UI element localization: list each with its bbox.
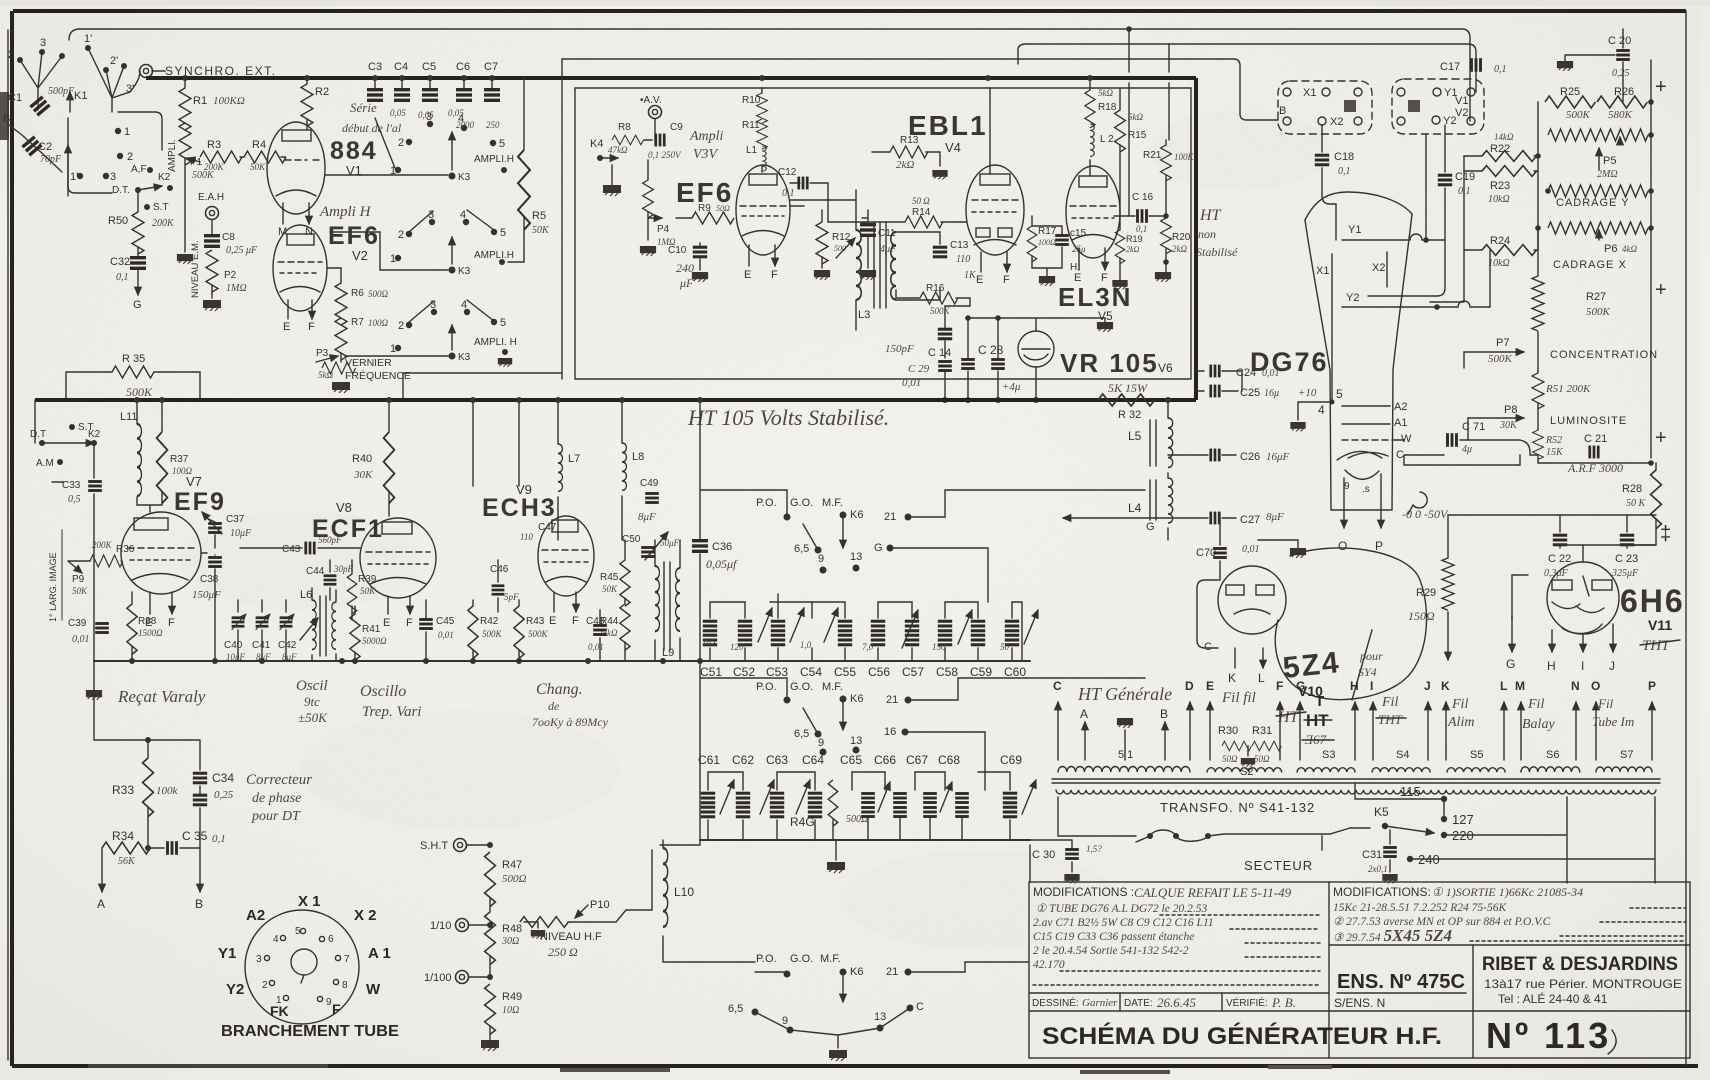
wire C21 row to rail (1648, 460, 1654, 466)
svg-text:Fil: Fil (1597, 696, 1614, 711)
svg-text:R2: R2 (315, 86, 329, 98)
svg-text:C: C (1204, 641, 1212, 653)
svg-text:V1: V1 (1455, 95, 1468, 107)
inductor L7 (557, 400, 559, 444)
switch cluster PO GO MF no2 (700, 678, 1145, 790)
svg-text:MODIFICATIONS :: MODIFICATIONS : (1033, 885, 1134, 899)
svg-text:6H6: 6H6 (1620, 583, 1685, 619)
svg-text:1° LARG. IMAGE: 1° LARG. IMAGE (48, 552, 58, 622)
svg-text:C42: C42 (278, 640, 297, 651)
resistor R43 (514, 606, 524, 659)
svg-text:AMPLI.H: AMPLI.H (474, 154, 514, 165)
svg-text:C24: C24 (1236, 367, 1256, 379)
wire box top y59-88 (575, 87, 1191, 89)
svg-text:E: E (549, 615, 556, 627)
scanner noise blobs (0, 92, 9, 140)
wire VR top rail (966, 317, 1105, 319)
svg-text:Fil: Fil (1527, 697, 1544, 712)
svg-text:S/ENS. N: S/ENS. N (1334, 996, 1385, 1010)
svg-text:X2: X2 (1330, 116, 1343, 128)
svg-text:L9: L9 (662, 647, 674, 659)
svg-text:M.F.: M.F. (820, 953, 841, 965)
trimmer C57 (938, 620, 952, 647)
svg-text:1K: 1K (964, 270, 977, 281)
resistor R17 (1027, 226, 1037, 262)
node D.T. (135, 187, 141, 193)
svg-text:110: 110 (520, 532, 533, 542)
svg-text:7,0: 7,0 (862, 642, 874, 652)
trimmer C42 (280, 614, 294, 630)
svg-text:6: 6 (328, 934, 334, 945)
bias pot circle (1408, 492, 1427, 514)
svg-text:4: 4 (273, 934, 279, 945)
wire top rail y29 (69, 29, 1470, 121)
svg-text:R4: R4 (252, 139, 266, 151)
svg-text:C70: C70 (1196, 547, 1216, 559)
svg-text:30K: 30K (353, 469, 373, 481)
terminal SYNCHRO EXT (140, 65, 153, 78)
svg-text:.s: .s (1362, 484, 1370, 495)
svg-text:500K: 500K (930, 306, 951, 316)
svg-text:Ampli: Ampli (689, 129, 724, 144)
svg-text:M.F.: M.F. (822, 497, 843, 509)
svg-text:50 Ω: 50 Ω (912, 196, 930, 206)
ground under R12 (814, 270, 830, 280)
svg-text:C 35: C 35 (182, 829, 208, 843)
ground right of VR105 (1104, 318, 1106, 322)
svg-text:I: I (1370, 679, 1373, 693)
inductor L5 (1167, 400, 1169, 418)
resistor R49 (485, 984, 496, 1034)
svg-text:C37: C37 (226, 514, 245, 525)
svg-text:2 le 20.4.54 Sortie 541-132: 2 le 20.4.54 Sortie 541-132 542-2 (1033, 945, 1189, 957)
potentiometer P2 (206, 250, 218, 292)
wire K2 down (93, 443, 95, 661)
svg-text:16μF: 16μF (1266, 451, 1290, 463)
svg-text:+: + (1655, 279, 1667, 301)
deflection plate box Y dashed (1392, 79, 1484, 134)
svg-text:100Ω: 100Ω (1038, 238, 1056, 247)
svg-text:R9: R9 (698, 203, 711, 214)
resistor CADRAGE Y row (1548, 185, 1648, 197)
wire grid into 884 (284, 156, 286, 158)
svg-text:R51 200K: R51 200K (1545, 383, 1591, 395)
svg-text:A2: A2 (1394, 401, 1407, 413)
wire EL3N grid to C16 (1114, 215, 1120, 217)
svg-text:R7: R7 (351, 317, 364, 328)
svg-text:L1: L1 (746, 145, 758, 156)
arrow A (101, 858, 103, 892)
svg-text:4kΩ: 4kΩ (1622, 244, 1637, 254)
resistor R41 (350, 614, 360, 660)
svg-text:K2: K2 (88, 429, 101, 440)
svg-text:G.O.: G.O. (790, 681, 813, 693)
svg-text:V7: V7 (186, 474, 202, 489)
svg-text:non: non (1198, 227, 1216, 241)
capacitor C17 (1470, 58, 1482, 72)
capacitor C2 (21, 135, 42, 156)
vertical X feed wires (1425, 134, 1427, 240)
wire SYNCHRO bus y78 thick (146, 76, 1196, 80)
primary tap 115 (1355, 783, 1444, 799)
svg-text:S5: S5 (1470, 749, 1483, 761)
svg-text:150μF: 150μF (192, 589, 221, 601)
svg-text:B: B (195, 897, 203, 911)
ground under P2 (203, 300, 221, 311)
ground stub right (524, 922, 538, 928)
svg-text:G: G (1296, 679, 1305, 693)
svg-text:L8: L8 (632, 451, 644, 463)
svg-text:3: 3 (426, 111, 432, 123)
svg-text:R 32: R 32 (1118, 409, 1141, 421)
svg-text:P3: P3 (316, 348, 329, 359)
svg-text:C67: C67 (906, 753, 928, 767)
svg-text:1': 1' (70, 171, 78, 183)
svg-text:C: C (1053, 679, 1062, 693)
svg-text:K3: K3 (458, 352, 471, 363)
inductor L2 (1090, 124, 1094, 156)
svg-text:Fil: Fil (1451, 697, 1468, 712)
tube VR105 V6 (1018, 318, 1054, 400)
capacitor C27 (1168, 517, 1236, 519)
svg-text:S.T: S.T (153, 202, 169, 213)
svg-text:W: W (366, 981, 381, 998)
svg-text:4μ: 4μ (1462, 444, 1472, 455)
trimmer C55 (871, 620, 885, 647)
capacitor C19 (1444, 125, 1446, 172)
trimmer C61 (701, 792, 715, 819)
svg-text:VR 105: VR 105 (1060, 348, 1159, 378)
rotary switch fan 2 (84, 33, 134, 112)
potentiometer P1 (179, 123, 191, 165)
inductor L8 (621, 400, 623, 443)
svg-text:50μF: 50μF (660, 538, 680, 548)
capacitor C14 (938, 328, 952, 341)
svg-text:R20: R20 (1172, 232, 1191, 243)
svg-text:Trep. Vari: Trep. Vari (362, 704, 421, 720)
svg-text:C 14: C 14 (928, 347, 951, 359)
svg-text:R19: R19 (1126, 234, 1143, 244)
resistor R48 (485, 912, 496, 965)
svg-text:THT: THT (1378, 712, 1403, 727)
trimmer C62 (736, 792, 750, 819)
svg-text:C57: C57 (902, 665, 924, 679)
svg-text:560pF: 560pF (318, 535, 342, 545)
svg-text:SYNCHRO. EXT.: SYNCHRO. EXT. (165, 64, 277, 78)
wire X1 down to gun (1331, 289, 1333, 402)
svg-text:5 1: 5 1 (1118, 749, 1133, 761)
svg-text:EBL1: EBL1 (908, 110, 988, 141)
svg-text:2kΩ: 2kΩ (896, 159, 914, 171)
svg-text:C17: C17 (1440, 61, 1460, 73)
svg-text:B: B (3, 113, 10, 125)
ground near C20 (1557, 61, 1573, 71)
svg-text:0,25: 0,25 (214, 789, 234, 801)
wire drop x1169 (1168, 44, 1170, 140)
svg-text:AMPLI. H: AMPLI. H (474, 337, 517, 348)
svg-text:G: G (133, 299, 142, 311)
svg-text:5000Ω: 5000Ω (362, 636, 387, 646)
resistor R44 (620, 604, 630, 650)
svg-text:5Z4: 5Z4 (1281, 646, 1342, 685)
trimmer C63 (770, 792, 784, 819)
capacitor C22 (1559, 515, 1561, 532)
svg-text:R49: R49 (502, 991, 522, 1003)
trimmer C67 (923, 792, 937, 818)
svg-text:0,1: 0,1 (1136, 224, 1147, 234)
secondary S4 (1372, 768, 1430, 772)
svg-text:P: P (1648, 679, 1656, 693)
wire top third rail y59 (562, 59, 1278, 120)
svg-text:C56: C56 (868, 665, 890, 679)
svg-text:2: 2 (398, 137, 404, 149)
svg-text:S.H.T: S.H.T (420, 840, 448, 852)
resistor R10 (761, 88, 763, 93)
svg-text:C39: C39 (68, 618, 87, 629)
svg-text:A1: A1 (1394, 417, 1407, 429)
resistor R52 (1533, 430, 1544, 459)
electrode A1 (1342, 423, 1390, 425)
svg-text:C59: C59 (970, 665, 992, 679)
svg-text:C18: C18 (1334, 151, 1354, 163)
svg-text:C 23: C 23 (1615, 553, 1638, 565)
svg-text:R30: R30 (1218, 725, 1238, 737)
svg-text:10Ω: 10Ω (502, 1005, 519, 1016)
svg-text:100Ω: 100Ω (368, 318, 389, 328)
wire drop x1129 (1128, 29, 1130, 216)
svg-text:G.O.: G.O. (790, 497, 813, 509)
svg-text:R10: R10 (742, 95, 761, 106)
svg-text:5: 5 (500, 317, 506, 329)
svg-text:P1: P1 (190, 157, 203, 168)
svg-text:Ampli H: Ampli H (319, 204, 372, 220)
resistor R27 (1532, 276, 1544, 331)
svg-text:C43: C43 (282, 544, 301, 555)
svg-text:C50: C50 (622, 534, 641, 545)
svg-text:F: F (771, 269, 778, 281)
correcteur cluster wire (94, 740, 200, 770)
arrows G H I J under 6M6 (1511, 616, 1513, 652)
svg-text:F: F (1003, 274, 1010, 286)
ground under R13 (932, 170, 947, 179)
svg-text:150pF: 150pF (885, 343, 914, 355)
svg-text:500K: 500K (1566, 109, 1591, 121)
svg-text:X1: X1 (1316, 265, 1329, 277)
svg-text:début de l'al: début de l'al (342, 121, 402, 135)
trimmer C41 (256, 614, 270, 630)
svg-text:F: F (572, 615, 579, 627)
svg-text:884: 884 (330, 137, 378, 165)
svg-text:N: N (1571, 679, 1580, 693)
svg-text:500pF: 500pF (48, 86, 75, 97)
svg-text:C46: C46 (490, 564, 509, 575)
capacitor C10 (693, 246, 707, 259)
svg-text:R11: R11 (742, 120, 760, 131)
svg-text:0,01: 0,01 (1242, 544, 1260, 555)
resistor R7 (335, 318, 347, 360)
ground under bank2 (835, 840, 837, 860)
resistor R50 (132, 212, 144, 254)
svg-text:R26: R26 (1614, 86, 1634, 98)
resistor R35 (112, 366, 154, 378)
svg-text:0,25: 0,25 (1612, 68, 1630, 79)
svg-text:10kΩ: 10kΩ (1488, 194, 1510, 205)
svg-text:500K: 500K (1488, 353, 1513, 365)
resistor R4 (244, 151, 286, 163)
svg-text:3: 3 (110, 171, 116, 183)
trimmer C68 (955, 792, 969, 818)
svg-text:1,0: 1,0 (800, 640, 812, 650)
resistor row P6 (1548, 222, 1648, 234)
inductor L1 (762, 146, 766, 171)
svg-text:E: E (976, 274, 983, 286)
svg-text:R22: R22 (1490, 143, 1510, 155)
svg-text:P4: P4 (657, 224, 670, 235)
bottom rail mid (94, 660, 1030, 662)
svg-text:200K: 200K (92, 540, 113, 550)
svg-text:C10: C10 (668, 245, 687, 256)
svg-text:8μF: 8μF (1266, 511, 1284, 523)
svg-text:CONCENTRATION: CONCENTRATION (1550, 349, 1658, 361)
svg-text:R1: R1 (193, 95, 207, 107)
svg-text:5kΩ: 5kΩ (318, 370, 333, 380)
svg-text:C 20: C 20 (1608, 35, 1631, 47)
svg-text:16μ: 16μ (1264, 388, 1279, 399)
svg-text:30K: 30K (1499, 420, 1518, 431)
svg-text:Oscil: Oscil (296, 678, 328, 694)
svg-text:C27: C27 (1240, 514, 1260, 526)
transformer core (1052, 779, 1660, 783)
capacitor C8 (211, 220, 213, 234)
svg-text:K: K (1228, 671, 1236, 685)
svg-text:K1: K1 (74, 90, 87, 102)
capacitor C32 (130, 256, 146, 270)
svg-text:16: 16 (884, 726, 896, 738)
svg-text:5kΩ: 5kΩ (1098, 88, 1113, 98)
capacitor C16 (1136, 209, 1148, 223)
svg-text:K6: K6 (850, 509, 863, 521)
svg-text:C44: C44 (306, 566, 325, 577)
svg-text:A: A (1080, 707, 1088, 721)
wire Y2 plate right (1381, 250, 1490, 307)
inductor L11 (136, 400, 138, 424)
svg-text:7: 7 (344, 954, 350, 965)
svg-text:NIVEAU H.F: NIVEAU H.F (540, 931, 602, 943)
potentiometer P9 (68, 561, 82, 573)
svg-text:100k: 100k (156, 785, 179, 797)
svg-text:C15 C19 C33 C36 passent étanc: C15 C19 C33 C36 passent étanche (1033, 931, 1194, 943)
svg-text:C58: C58 (936, 665, 958, 679)
svg-text:R37: R37 (170, 454, 189, 465)
ground left of C9 (603, 185, 621, 196)
svg-text:R17: R17 (1038, 226, 1057, 237)
switch K3 fan2 (330, 209, 514, 277)
svg-text:R18: R18 (1098, 102, 1117, 113)
svg-text:C68: C68 (938, 753, 960, 767)
svg-text:R42: R42 (480, 616, 499, 627)
right rail verticals (1538, 60, 1651, 458)
svg-text:Tube Im: Tube Im (1592, 714, 1634, 729)
svg-text:P7: P7 (1496, 337, 1509, 349)
svg-text:C61: C61 (698, 753, 720, 767)
svg-text:0,25 μF: 0,25 μF (226, 245, 258, 256)
node S.T left (69, 424, 75, 430)
svg-text:50Ω: 50Ω (716, 204, 730, 213)
svg-text:21: 21 (886, 694, 898, 706)
svg-text:120: 120 (730, 642, 744, 652)
svg-text:FK: FK (270, 1003, 289, 1019)
pentode EF6 V2 (273, 225, 327, 319)
svg-text:V4: V4 (945, 140, 961, 155)
secondary S6 (1521, 767, 1580, 772)
svg-text:1: 1 (390, 343, 396, 355)
svg-text:5: 5 (499, 138, 505, 150)
CRT DG76 funnel (1305, 192, 1412, 510)
pentode EL3N V5 (1066, 166, 1120, 270)
svg-text:R48: R48 (502, 923, 522, 935)
svg-text:① TUBE DG76 A.L DG72 le 20.: ① TUBE DG76 A.L DG72 le 20.2.53 (1036, 903, 1207, 915)
svg-text:BRANCHEMENT TUBE: BRANCHEMENT TUBE (221, 1023, 399, 1040)
capacitor C35 (166, 841, 178, 855)
terminal arrows to transformer (1058, 702, 1652, 760)
svg-text:Y2: Y2 (1346, 292, 1359, 304)
capacitor C26 (1168, 454, 1236, 456)
svg-text:K4: K4 (590, 138, 603, 150)
svg-text:P10: P10 (590, 899, 610, 911)
svg-text:A2: A2 (246, 907, 265, 924)
svg-text:O: O (1338, 539, 1347, 553)
svg-text:J: J (1424, 679, 1431, 693)
svg-text:8: 8 (342, 980, 348, 991)
svg-text:5: 5 (295, 926, 301, 937)
potentiometer P10 (520, 917, 568, 928)
resistor R15 (1119, 88, 1121, 110)
svg-text:A.M: A.M (36, 458, 54, 469)
svg-text:F: F (168, 617, 175, 629)
resistor R9 (692, 212, 734, 224)
svg-text:CALQUE REFAIT LE 5-11-49: CALQUE REFAIT LE 5-11-49 (1134, 885, 1292, 900)
svg-text:MODIFICATIONS:: MODIFICATIONS: (1333, 885, 1431, 899)
svg-text:500K: 500K (126, 385, 153, 399)
svg-text:AMPLI.H: AMPLI.H (474, 250, 514, 261)
svg-text:S4: S4 (1396, 749, 1409, 761)
svg-text:K3: K3 (458, 266, 471, 277)
svg-text:C3: C3 (368, 61, 382, 73)
svg-text:C36: C36 (712, 541, 732, 553)
wire W to right (1398, 439, 1404, 441)
resistor R40 (388, 400, 390, 432)
capacitor C28 (961, 358, 975, 370)
capacitor C29 (938, 360, 952, 372)
svg-text:Série: Série (350, 100, 377, 115)
svg-text:R27: R27 (1586, 291, 1606, 303)
svg-text:F: F (332, 1001, 341, 1017)
svg-text:0,05μf: 0,05μf (706, 557, 738, 571)
svg-text:HT: HT (1199, 207, 1222, 224)
svg-text:200K: 200K (152, 218, 175, 229)
svg-text:G: G (1146, 521, 1155, 533)
svg-text:6,5: 6,5 (728, 1003, 743, 1015)
svg-text:FRÉQUENCE: FRÉQUENCE (345, 369, 411, 382)
svg-text:‡: ‡ (1660, 523, 1671, 545)
svg-text:13: 13 (850, 551, 862, 563)
svg-text:5pF: 5pF (504, 592, 519, 602)
svg-text:56K: 56K (118, 856, 136, 867)
svg-text:50Ω: 50Ω (1254, 754, 1270, 764)
svg-text:SECTEUR: SECTEUR (1244, 858, 1313, 873)
wires 220 240 to right (1410, 797, 1655, 883)
svg-text:R21: R21 (1143, 150, 1162, 161)
